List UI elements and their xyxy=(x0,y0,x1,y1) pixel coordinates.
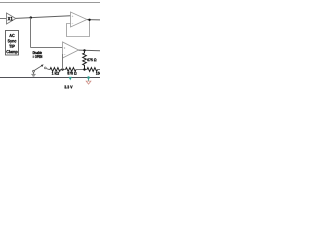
op-amp U1 xyxy=(71,12,88,27)
wire R4 to edge xyxy=(97,69,100,71)
resistor R3 878 ohm xyxy=(66,68,77,72)
wire to op-amp U2 plus input xyxy=(31,47,63,49)
switch SW1 lever xyxy=(34,65,42,70)
wire U1 output xyxy=(87,19,100,21)
wire teal stem xyxy=(88,78,90,81)
node U1 output junction dot xyxy=(88,19,90,21)
label U2 minus pin xyxy=(64,53,66,55)
power 3.3V tap triangle xyxy=(69,77,73,81)
wire U1 feedback loop xyxy=(67,20,90,37)
op-amp U2 xyxy=(63,42,79,58)
label AC Sync TIP Clamp xyxy=(6,34,17,54)
label Disable OPEN xyxy=(33,51,42,58)
wire node B up to U2 minus input xyxy=(62,54,64,70)
switch SW1 contact circle xyxy=(44,67,46,69)
wire X1 output to op-amp U1 plus input via node A xyxy=(16,16,71,19)
label U1 minus pin xyxy=(72,22,73,24)
node A junction dot xyxy=(30,16,32,18)
node C junction dot xyxy=(83,68,85,70)
node B junction dot xyxy=(61,68,63,70)
label 150 ohm xyxy=(96,72,105,75)
label 3.3 V xyxy=(64,85,72,88)
wire R3 to node C xyxy=(76,69,87,71)
wire bottom supply rail xyxy=(0,77,100,79)
wire U2 output xyxy=(79,49,101,52)
node U2 output junction dot xyxy=(83,49,85,51)
ground symbol salmon xyxy=(86,81,91,84)
resistor R1 675 ohm xyxy=(83,50,87,69)
wire input to buffer X1 xyxy=(0,18,7,20)
node rail tap dot teal xyxy=(87,76,90,79)
resistor R4 150 ohm xyxy=(87,68,98,72)
label 1 kohm xyxy=(52,72,59,75)
switch SW1 arrowhead xyxy=(41,64,44,67)
wire top rail xyxy=(0,2,100,4)
label 675 ohm xyxy=(87,58,96,61)
wire R2 to node B xyxy=(61,69,66,71)
label U2 plus pin xyxy=(64,47,66,49)
label 878 ohm xyxy=(67,72,76,75)
label X1 xyxy=(8,17,13,20)
switch SW1 ground xyxy=(31,70,35,77)
resistor R2 1 kohm xyxy=(50,68,61,72)
buffer X1 xyxy=(7,13,16,24)
label U1 plus pin xyxy=(72,15,73,17)
wire switch to resistor R2 xyxy=(46,68,50,69)
box AC Sync TIP Clamp xyxy=(6,31,19,56)
wire node A down xyxy=(30,18,32,48)
